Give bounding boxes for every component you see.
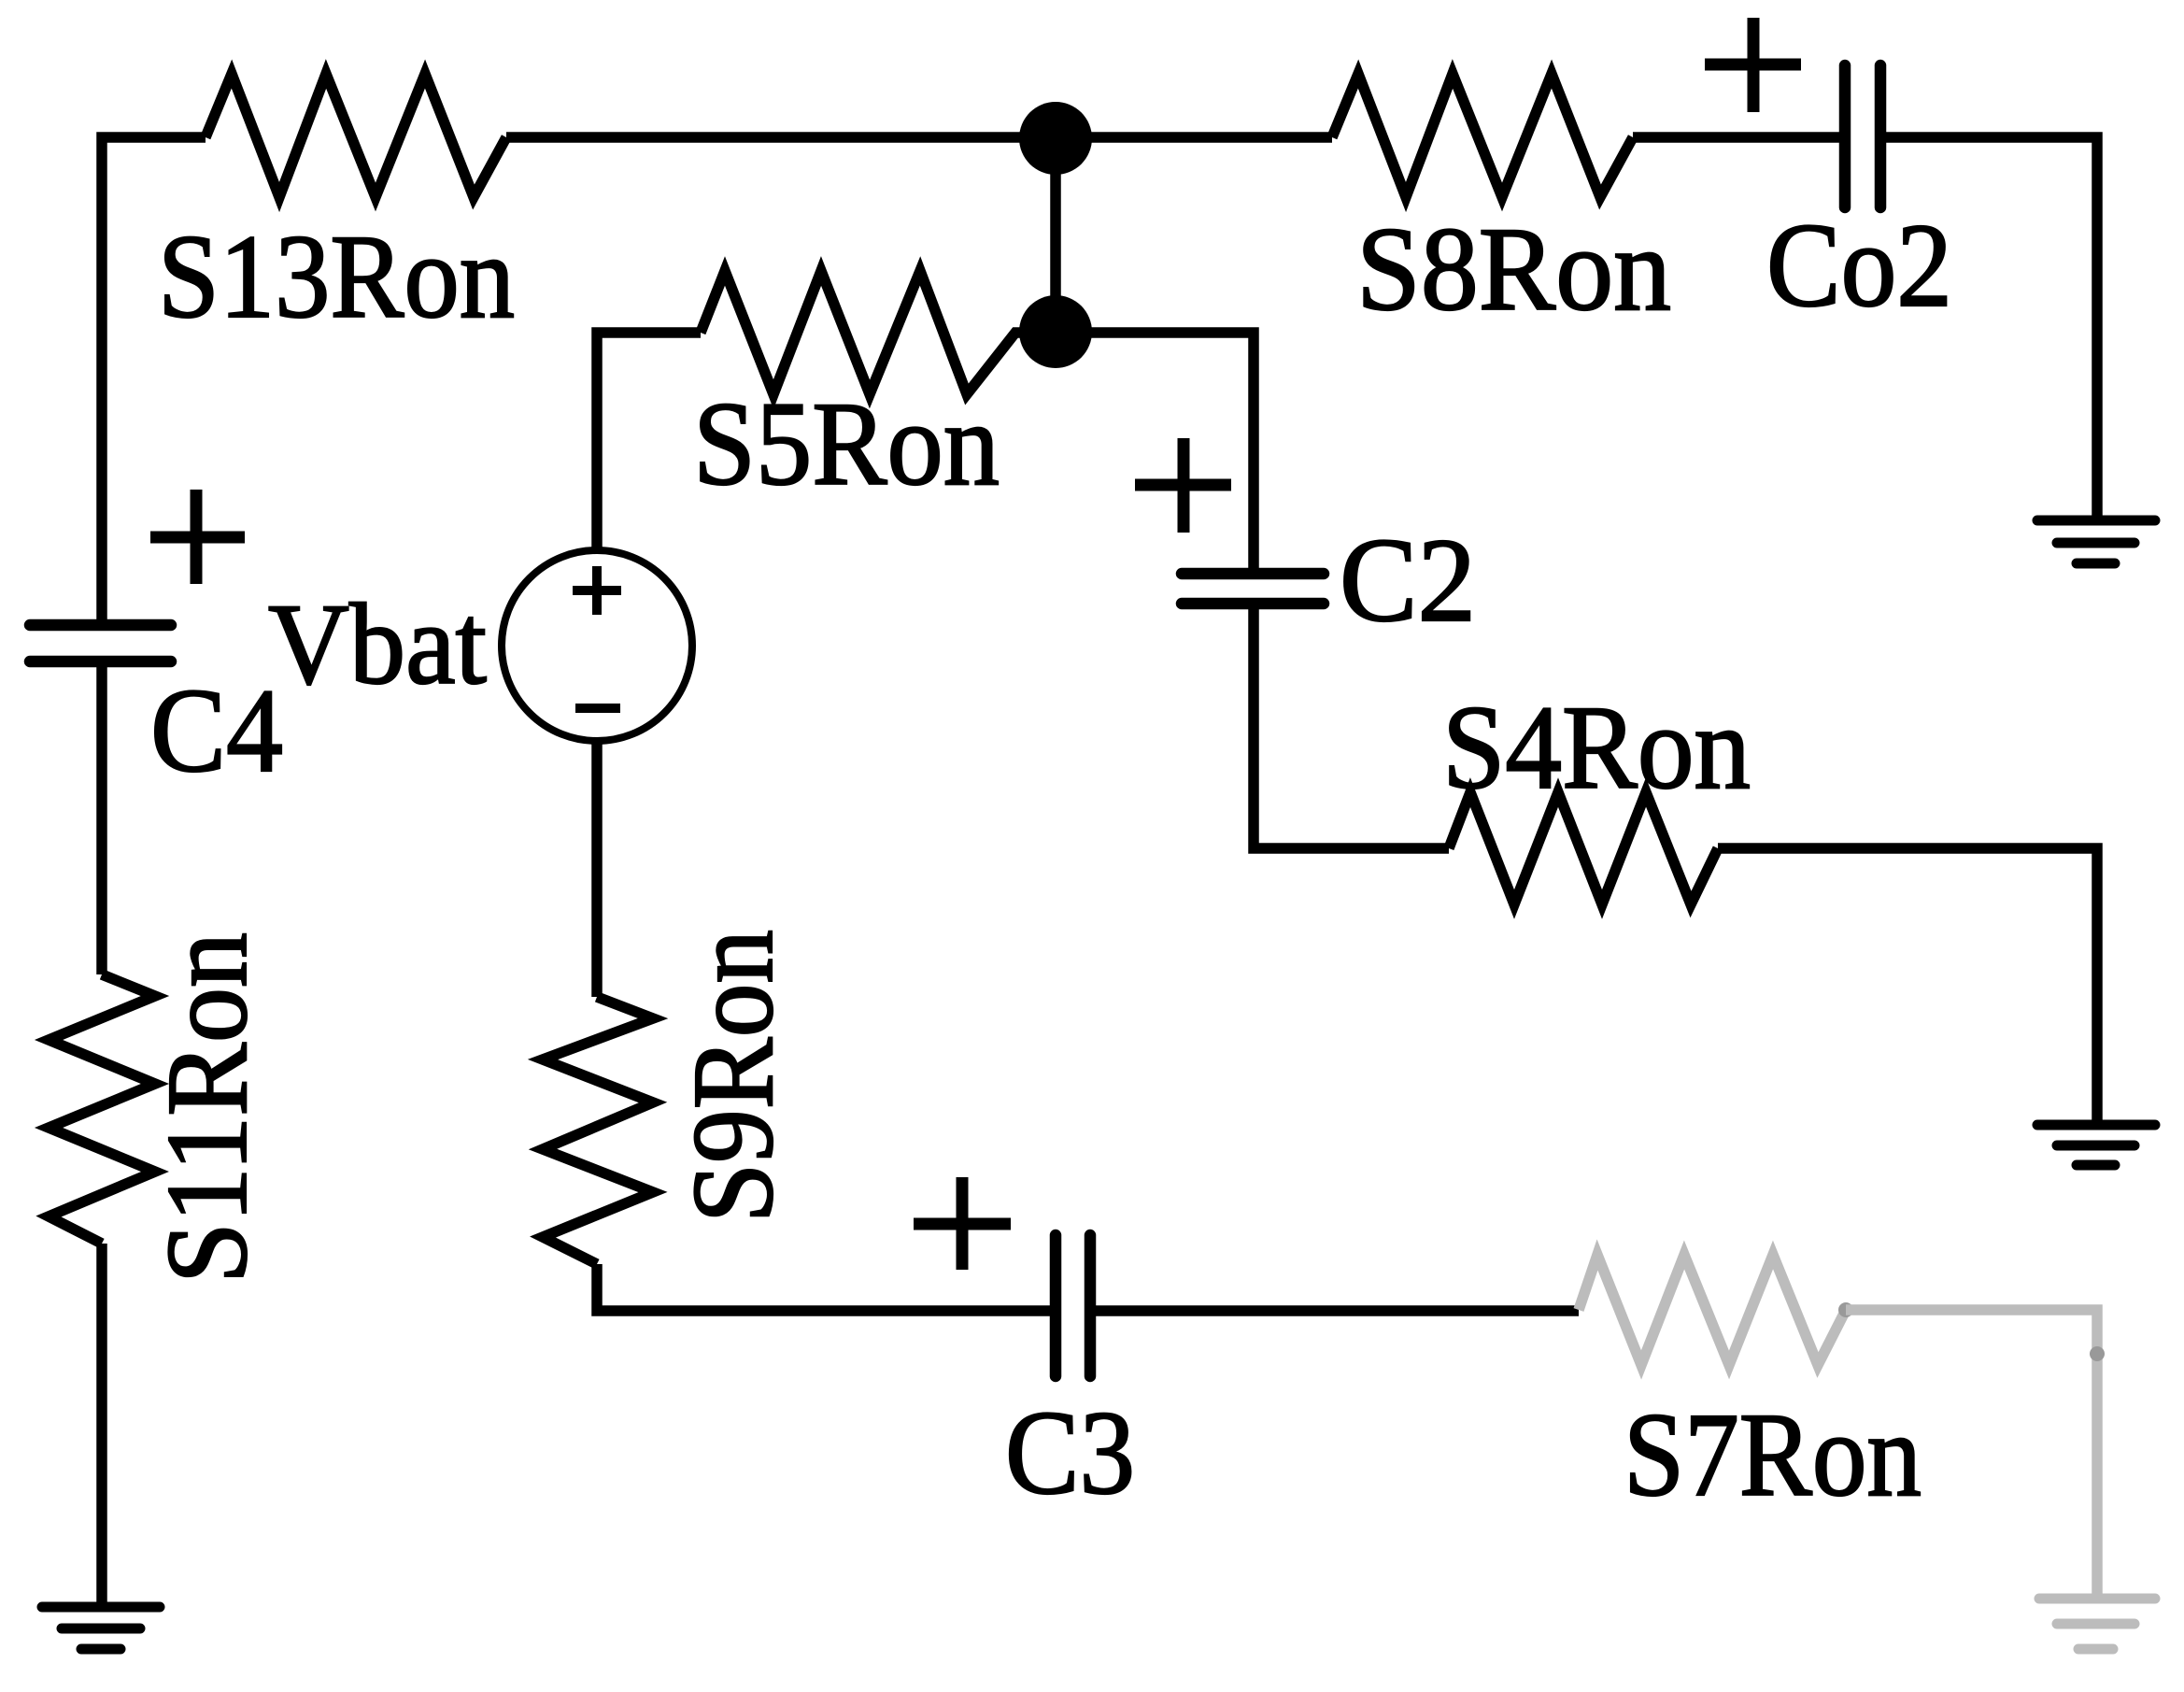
svg-text:Vbat: Vbat bbox=[268, 580, 487, 708]
wire: S11Ron down to ground bbox=[96, 1244, 107, 1607]
svg-text:S5Ron: S5Ron bbox=[693, 377, 1000, 510]
wire: Vbat bottom to S9Ron bbox=[591, 741, 603, 997]
plus sign inside Vbat bbox=[573, 566, 621, 615]
svg-text:S9Ron: S9Ron bbox=[669, 930, 797, 1223]
svg-text:S7Ron: S7Ron bbox=[1624, 1388, 1922, 1521]
svg-text:C2: C2 bbox=[1340, 514, 1476, 647]
ground gray bottom-right bbox=[2039, 1599, 2155, 1649]
svg-text:Co2: Co2 bbox=[1766, 199, 1952, 332]
resistor S11Ron (vertical) bbox=[49, 974, 155, 1244]
resistor S4Ron bbox=[1449, 792, 1718, 904]
wire: node B right and down to C2 bbox=[1056, 333, 1254, 574]
junction dot gray at S7Ron end bbox=[1838, 1302, 1853, 1317]
ground below Co2 bbox=[2037, 520, 2155, 563]
ground below S4Ron bbox=[2037, 1125, 2155, 1165]
plus sign of C4 bbox=[150, 490, 245, 584]
plus sign of C3 bbox=[914, 1177, 1011, 1270]
node B junction dot bbox=[1019, 295, 1092, 368]
resistor S9Ron (vertical) bbox=[543, 997, 653, 1264]
svg-text:C4: C4 bbox=[150, 664, 283, 797]
wire: node A to S8Ron bbox=[1056, 132, 1332, 143]
resistor S8Ron bbox=[1332, 74, 1633, 197]
wire: S4Ron right to ground bbox=[1718, 848, 2097, 1125]
plus sign of C2 bbox=[1135, 438, 1231, 533]
wire: Vbat top up and right to S5Ron bbox=[597, 333, 701, 550]
wire: C3 right to S7Ron bbox=[1090, 1305, 1579, 1316]
capacitor Co2 bbox=[1845, 65, 1880, 207]
node A junction dot bbox=[1019, 102, 1092, 175]
capacitor C3 bbox=[1056, 1235, 1090, 1376]
wire: node A down to node B bbox=[1050, 138, 1061, 332]
wire: top-left corner from C4 up and right to S13Ron bbox=[102, 137, 206, 625]
voltage source Vbat circle bbox=[502, 550, 692, 741]
resistor S13Ron bbox=[206, 74, 506, 197]
svg-text:S11Ron: S11Ron bbox=[143, 932, 271, 1284]
capacitor C4 bbox=[30, 625, 171, 661]
svg-text:C3: C3 bbox=[1005, 1386, 1135, 1519]
wire: C4 bottom to S11Ron bbox=[96, 661, 107, 974]
wire: S8Ron to Co2 bbox=[1633, 132, 1845, 143]
ground bottom-left bbox=[42, 1607, 160, 1649]
junction dot gray on rail bbox=[2090, 1346, 2105, 1361]
wire: Co2 right to ground rail bbox=[1880, 137, 2097, 520]
svg-text:S8Ron: S8Ron bbox=[1356, 203, 1671, 335]
plus sign of Co2 bbox=[1705, 18, 1801, 112]
svg-text:S4Ron: S4Ron bbox=[1442, 681, 1751, 814]
resistor S7Ron (gray, off state) bbox=[1579, 1255, 1846, 1365]
resistor S5Ron bbox=[701, 271, 1056, 394]
wire: S9Ron down and right to C3 bbox=[597, 1264, 1056, 1311]
wire: S13Ron to node A bbox=[506, 132, 1056, 143]
wire: C2 bottom down and right to S4Ron bbox=[1254, 604, 1449, 848]
minus sign inside Vbat bbox=[575, 704, 620, 713]
capacitor C2 bbox=[1182, 574, 1324, 604]
wire gray: S7Ron to bottom-right ground bbox=[1846, 1310, 2097, 1599]
svg-text:S13Ron: S13Ron bbox=[158, 210, 515, 343]
